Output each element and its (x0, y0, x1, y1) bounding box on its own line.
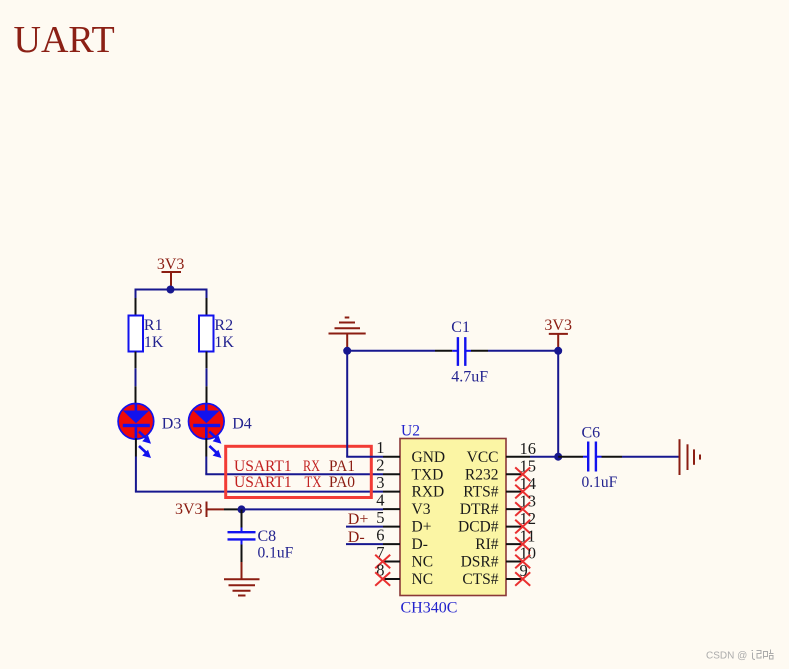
junction at 3V3 top rail (167, 286, 175, 294)
wire: USART1_RX_PA1 net to pin 2 (205, 473, 383, 475)
junction at VCC / C6 (554, 453, 562, 461)
wire: D+ stub (346, 526, 383, 528)
pin: D3 cathode lead (135, 438, 137, 456)
svg-text:3V3: 3V3 (157, 256, 185, 273)
svg-text:CSDN @: CSDN @ (706, 651, 747, 662)
wire: C1 to 3V3 junction (488, 350, 558, 352)
pin: R2 top lead (206, 298, 208, 316)
svg-text:U2: U2 (401, 423, 420, 440)
pin 6 D- (376, 526, 428, 554)
svg-text:3V3: 3V3 (544, 317, 572, 334)
pin: R2 bottom lead (206, 352, 208, 369)
wire: pin 16 to VCC junction (530, 456, 558, 458)
svg-text:R232: R232 (465, 466, 499, 483)
svg-text:UART: UART (14, 19, 115, 61)
capacitor C6 (558, 425, 622, 491)
resistor R1 (129, 316, 164, 352)
junction at GND / C1 (343, 347, 351, 355)
net label USART1_TX_PA0 (234, 474, 355, 491)
pin 14 RTS# (463, 474, 536, 501)
resistor R2 (199, 316, 234, 352)
svg-text:USART1: USART1 (234, 458, 292, 475)
svg-text:RX: RX (303, 458, 320, 475)
pin 12 DCD# (458, 509, 536, 536)
svg-text:VCC: VCC (467, 449, 499, 466)
pin 16 VCC (467, 439, 536, 466)
wire: 3V3 junction down to VCC (557, 351, 559, 457)
svg-text:3: 3 (376, 473, 384, 492)
net label USART1_RX_PA1 (234, 458, 355, 475)
svg-text:PA0: PA0 (329, 474, 355, 491)
ground (below C8) (224, 579, 260, 595)
wire: junction to pin 4 (242, 508, 384, 510)
svg-text:5: 5 (376, 508, 384, 527)
pin 13 DTR# (460, 491, 536, 518)
wire: R2 to D4 (206, 368, 208, 386)
wire: GND junction down to pin 1 (346, 351, 348, 457)
no-ERC cross pin 10 (515, 555, 530, 569)
pin: C8 to ground lead (241, 562, 243, 579)
no-ERC cross pin 9 (515, 572, 530, 586)
svg-text:PA1: PA1 (329, 458, 355, 475)
wire: D- stub (346, 543, 383, 545)
svg-text:D+: D+ (412, 519, 432, 536)
wire: rail to R2 top (206, 289, 208, 299)
svg-text:D+: D+ (348, 511, 369, 528)
wire: top rail between R1 and R2 (136, 289, 207, 291)
wire: corner to pin 1 (347, 456, 383, 457)
highlight box around net labels (226, 446, 372, 497)
svg-text:TXD: TXD (412, 466, 444, 483)
svg-text:C8: C8 (258, 528, 277, 545)
svg-text:0.1uF: 0.1uF (582, 474, 618, 491)
svg-text:DCD#: DCD# (458, 519, 499, 536)
svg-text:RXD: RXD (412, 484, 445, 501)
power 3V3 (left of C8) (175, 501, 224, 518)
no-ERC cross pin 15 (515, 467, 530, 481)
IC U2 CH340C body (400, 423, 506, 617)
svg-text:D4: D4 (232, 415, 252, 432)
svg-text:RI#: RI# (475, 536, 499, 553)
svg-text:1: 1 (376, 438, 384, 457)
capacitor C8 (228, 509, 294, 562)
svg-text:CTS#: CTS# (462, 571, 498, 588)
svg-text:6: 6 (376, 526, 384, 545)
power 3V3 (top, LED supply) (157, 256, 185, 287)
pin 2 TXD (376, 456, 443, 484)
pin: D4 anode lead (206, 386, 208, 404)
no-ERC cross pin 12 (515, 520, 530, 534)
svg-text:C6: C6 (582, 425, 601, 442)
wire: rail to R1 top (135, 289, 137, 299)
pin 15 R232 (465, 456, 536, 483)
wire: GND junction to C1 (347, 350, 435, 352)
svg-text:GND: GND (412, 449, 446, 466)
pin 3 RXD (376, 473, 444, 501)
LED D3 (118, 404, 181, 459)
svg-text:D3: D3 (162, 415, 182, 432)
pin: R1 top lead (135, 298, 137, 316)
junction at 3V3 / C8 / pin 4 (238, 505, 246, 513)
pin 1 GND (376, 438, 445, 466)
svg-text:RTS#: RTS# (463, 484, 498, 501)
power 3V3 (top right) (544, 317, 572, 347)
svg-text:NC: NC (412, 571, 434, 588)
wire: 3V3 port to junction (224, 508, 242, 510)
svg-text:USART1: USART1 (234, 474, 292, 491)
svg-text:NC: NC (412, 554, 434, 571)
no-ERC cross pin 8 (375, 572, 390, 586)
pin 8 NC (376, 560, 433, 588)
svg-text:TX: TX (305, 474, 322, 491)
pin 10 DSR# (461, 544, 536, 571)
svg-text:D-: D- (412, 536, 428, 553)
no-ERC cross pin 13 (515, 502, 530, 516)
svg-text:R2: R2 (214, 317, 233, 334)
junction at 3V3 / C1 (554, 347, 562, 355)
pin 11 RI# (475, 526, 535, 553)
svg-text:C1: C1 (451, 319, 470, 336)
svg-text:DSR#: DSR# (461, 554, 499, 571)
pin 9 CTS# (462, 561, 527, 588)
svg-text:R1: R1 (144, 317, 163, 334)
svg-text:V3: V3 (412, 501, 431, 518)
svg-text:3V3: 3V3 (175, 501, 203, 518)
svg-text:1K: 1K (144, 334, 164, 351)
capacitor C1 (435, 319, 488, 385)
pin 4 V3 (376, 491, 430, 519)
pin: D4 cathode lead (205, 438, 207, 456)
no-ERC cross pin 11 (515, 537, 530, 551)
wire: USART1_TX_PA0 net to pin 3 (135, 491, 383, 493)
svg-text:1K: 1K (214, 334, 234, 351)
ground (top, inverted earth) (329, 318, 366, 349)
wire: C6 to right ground (622, 456, 679, 458)
svg-text:DTR#: DTR# (460, 501, 499, 518)
svg-text:0.1uF: 0.1uF (258, 544, 294, 561)
svg-text:4: 4 (376, 491, 384, 510)
svg-text:2: 2 (376, 456, 384, 475)
wire: R1 to D3 (135, 368, 137, 386)
pin: R1 bottom lead (135, 352, 137, 369)
svg-text:16: 16 (520, 439, 537, 458)
wire: D3 down to TX net (135, 457, 137, 492)
svg-text:CH340C: CH340C (401, 599, 458, 616)
ground (right, sideways earth) (680, 439, 701, 475)
no-ERC cross pin 14 (515, 485, 530, 499)
no-ERC cross pin 7 (375, 555, 390, 569)
svg-text:4.7uF: 4.7uF (451, 368, 488, 385)
pin 5 D+ (376, 508, 431, 536)
wire: D4 down to RX net (205, 457, 207, 475)
pin: D3 anode lead (135, 386, 137, 404)
watermark CSDN (706, 650, 774, 662)
LED D4 (189, 404, 252, 459)
pin 7 NC (376, 543, 433, 571)
